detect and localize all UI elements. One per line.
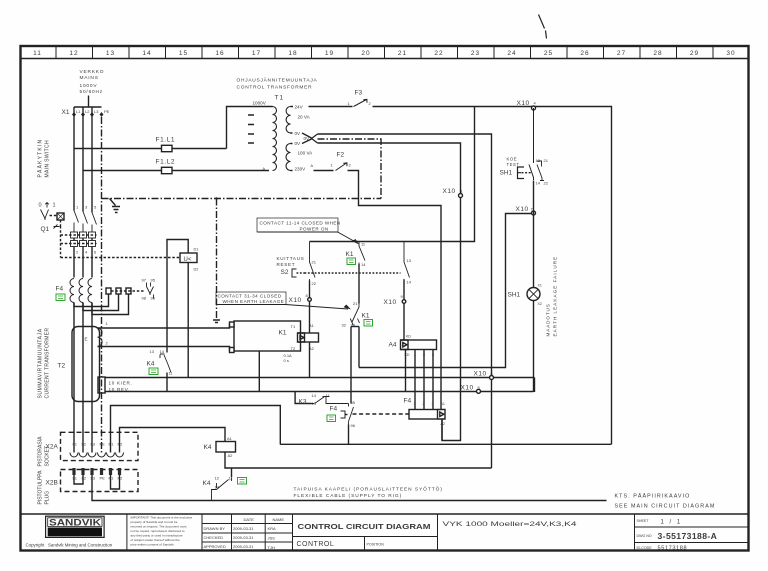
connector X2A socket cups <box>70 453 124 458</box>
svg-text:POWER ON: POWER ON <box>300 227 329 232</box>
wire rail y=377 from winding marker <box>105 377 535 379</box>
svg-text:27: 27 <box>617 50 626 57</box>
wire PE dash-dot vertical <box>101 117 103 453</box>
svg-text:96: 96 <box>351 423 356 428</box>
svg-text:CHECKED: CHECKED <box>204 535 224 540</box>
plc tag green K4 <box>149 368 158 375</box>
see-main-diagram note <box>615 493 716 510</box>
svg-text:10 KIER.: 10 KIER. <box>109 381 133 386</box>
svg-text:KOE: KOE <box>507 157 518 162</box>
svg-text:X10: X10 <box>289 297 302 304</box>
wire P1 from socket up and right <box>111 406 281 453</box>
wire 24V line to X10:4 and right drop <box>373 107 612 445</box>
svg-text:14: 14 <box>160 349 165 354</box>
svg-text:ID-CODE: ID-CODE <box>637 546 653 550</box>
connector X2A dashed box <box>61 432 139 460</box>
contact 13-14 (S2 operated) <box>407 258 412 285</box>
svg-text:A2: A2 <box>228 453 234 458</box>
svg-text:L2: L2 <box>85 109 90 114</box>
svg-text:PE: PE <box>100 476 106 481</box>
ruler cell dividers <box>56 46 713 59</box>
wire PE dash-dot branch down to earth bar <box>216 199 218 319</box>
terminal X10:8 on S2 line <box>309 281 311 325</box>
svg-text:not be copied, reproduced, dis: not be copied, reproduced, disclosed to <box>131 529 185 533</box>
svg-text:L3: L3 <box>91 442 96 447</box>
svg-text:0 s: 0 s <box>284 358 289 363</box>
svg-text:TJH: TJH <box>268 545 275 550</box>
svg-text:20 VA: 20 VA <box>298 115 311 120</box>
svg-text:MAADOTUS: MAADOTUS <box>546 303 551 336</box>
svg-text:CONTACT 31-34 CLOSED: CONTACT 31-34 CLOSED <box>218 294 282 299</box>
contact K4 13-14 on x=166 line <box>150 349 174 376</box>
wire X2B L3 long run right <box>92 475 607 501</box>
TITLEBLOCK <box>26 514 749 552</box>
svg-text:K4: K4 <box>204 444 212 451</box>
terminal X10:9 <box>403 280 405 341</box>
svg-text:16: 16 <box>215 50 224 57</box>
svg-text:A1: A1 <box>227 436 233 441</box>
svg-text:F1.L1: F1.L1 <box>156 137 176 144</box>
svg-text:100 VA: 100 VA <box>298 151 314 156</box>
wire PE dash-dot rail to right <box>102 198 382 200</box>
svg-text:1: 1 <box>414 402 416 406</box>
svg-text:PLUG: PLUG <box>45 491 51 505</box>
svg-text:22: 22 <box>544 181 549 186</box>
wire CT secondary nested runs <box>74 294 109 307</box>
relay K1 earth-leakage unit box <box>234 321 301 351</box>
mains label VERKKO/MAINS/1000V/50-60Hz <box>80 69 105 95</box>
wedge fork 0V <box>312 134 318 143</box>
svg-text:13: 13 <box>150 349 155 354</box>
svg-text:F4: F4 <box>56 286 64 293</box>
svg-text:X10: X10 <box>443 188 456 195</box>
svg-text:T2: T2 <box>58 363 66 370</box>
svg-text:SHEET: SHEET <box>637 519 650 523</box>
svg-text:PE: PE <box>104 109 110 114</box>
svg-text:K4: K4 <box>147 361 155 368</box>
svg-text:A2: A2 <box>441 422 445 426</box>
svg-text:property of Sandvik and it mus: property of Sandvik and it must be <box>131 520 178 524</box>
relay K1 coil <box>298 333 319 342</box>
wire K4 coil A2 rail right <box>225 452 492 468</box>
svg-text:D2: D2 <box>194 268 199 272</box>
svg-text:50/60Hz: 50/60Hz <box>80 89 103 95</box>
svg-text:KD: KD <box>406 335 411 339</box>
ruler bottom line / drawing top border <box>20 58 750 60</box>
disclaimer tiny text <box>131 516 193 547</box>
note flexible cable text <box>294 486 443 500</box>
svg-text:20: 20 <box>361 50 370 57</box>
svg-text:PÄÄKYTKIN: PÄÄKYTKIN <box>37 139 44 178</box>
svg-text:1: 1 <box>53 203 56 209</box>
svg-text:JSS: JSS <box>268 536 276 541</box>
svg-text:X10: X10 <box>461 385 474 392</box>
svg-text:2009-03-31: 2009-03-31 <box>233 544 254 549</box>
svg-text:28: 28 <box>653 50 662 57</box>
svg-text:K1: K1 <box>346 251 354 258</box>
svg-text:P1: P1 <box>109 442 115 447</box>
svg-text:3-55173188-A: 3-55173188-A <box>658 531 718 541</box>
svg-text:K1: K1 <box>279 330 287 337</box>
svg-text:any third party or used in man: any third party or used in manufacture <box>131 534 183 538</box>
label control transformer <box>237 77 318 91</box>
svg-text:of subject matter thereof with: of subject matter thereof without the <box>131 538 180 542</box>
svg-text:P2: P2 <box>118 476 124 481</box>
wire F4 A2 to 0V <box>441 419 443 441</box>
svg-text:22: 22 <box>312 281 317 286</box>
MAIN3 : T1 control transformer, F2, F3, 0V distribution <box>227 77 612 469</box>
switch Q1 operator box <box>57 213 64 220</box>
svg-text:2009-03-31: 2009-03-31 <box>233 535 254 540</box>
svg-text:98: 98 <box>142 296 147 301</box>
svg-text:24V: 24V <box>295 105 304 110</box>
svg-text:D1: D1 <box>194 248 199 252</box>
contact S2 21-22 <box>312 260 317 287</box>
wire A4 outputs down <box>406 350 434 410</box>
wire U< D2 down to rail <box>187 263 189 378</box>
wire 0V line A (down at 491) <box>318 134 492 468</box>
wire T2 secondary 2 to K1 <box>98 347 235 351</box>
svg-text:CONTROL TRANSFORMER: CONTROL TRANSFORMER <box>237 85 313 91</box>
svg-text:K1: K1 <box>362 313 370 320</box>
transformer T2 secondary arcs <box>98 328 103 346</box>
svg-text:0V: 0V <box>295 131 302 136</box>
wire 0V tap stubs into wedge <box>291 133 312 144</box>
svg-text:1000V: 1000V <box>80 83 98 89</box>
transformer T1 primary winding <box>273 107 277 171</box>
switch SH1 test (KOE) <box>507 157 520 168</box>
contact K1 11-14 <box>361 242 366 268</box>
svg-text:3: 3 <box>432 402 434 406</box>
svg-text:L1: L1 <box>76 109 81 114</box>
svg-text:WHEN EARTH LEAKAGE: WHEN EARTH LEAKAGE <box>223 299 285 304</box>
svg-text:F2: F2 <box>337 152 345 159</box>
svg-text:Copyright Sandvik Mining and: Copyright Sandvik Mining and Constructio… <box>26 543 113 548</box>
wire T2 secondary 1 to K1 <box>98 325 235 329</box>
secondary labels <box>295 105 314 172</box>
svg-text:0: 0 <box>39 203 42 209</box>
svg-text:TAIPUISA KAAPELI (PORAUSLAITTE: TAIPUISA KAAPELI (PORAUSLAITTEEN SYÖTTÖ) <box>294 486 443 493</box>
wire branch down to K3 line <box>295 392 311 404</box>
svg-text:K4: K4 <box>203 480 211 487</box>
note contact 11-14 <box>260 221 341 232</box>
wire K1-34 down to y367 rail <box>358 327 360 368</box>
wire phase L2 vertical <box>82 107 84 212</box>
relay coil K4 <box>216 442 236 453</box>
svg-text:0V: 0V <box>295 141 302 146</box>
CT terminal boxes <box>106 288 111 294</box>
wire branch up to K1 box bottom <box>258 351 260 392</box>
svg-text:1 / 1: 1 / 1 <box>661 520 683 526</box>
wire rail y=391 from winding marker <box>105 391 534 393</box>
wire rail R4 24V bottom <box>280 443 611 445</box>
title block top border <box>20 513 750 515</box>
svg-text:PISTORASIA: PISTORASIA <box>38 436 44 467</box>
svg-text:POSITION: POSITION <box>367 543 385 547</box>
fuse F1.L1 body <box>162 145 173 151</box>
svg-text:X10: X10 <box>516 206 529 213</box>
svg-text:FLEXIBLE CABLE (SUPPLY TO RIG): FLEXIBLE CABLE (SUPPLY TO RIG) <box>294 493 403 499</box>
linkage CT test dashed <box>111 290 144 292</box>
svg-text:2: 2 <box>423 402 425 406</box>
svg-text:CONTROL CIRCUIT DIAGRAM: CONTROL CIRCUIT DIAGRAM <box>298 522 431 531</box>
svg-text:95: 95 <box>151 278 156 283</box>
svg-text:CONTACT 11-14 CLOSED WHEN: CONTACT 11-14 CLOSED WHEN <box>260 221 341 226</box>
note contact 31-34 earth leakage <box>218 294 285 305</box>
svg-text:A1: A1 <box>441 402 445 406</box>
ground symbol on PE rail <box>110 199 121 213</box>
RULER <box>33 15 735 59</box>
svg-text:13: 13 <box>536 158 541 163</box>
svg-text:12: 12 <box>215 476 220 481</box>
MAIN4 : middle relays and right mesh <box>216 107 612 444</box>
svg-text:14: 14 <box>312 393 317 398</box>
connector X2B pins <box>72 468 121 475</box>
svg-text:DRAWN BY: DRAWN BY <box>204 526 226 531</box>
connector X2B dashed box <box>61 470 139 492</box>
svg-text:A4: A4 <box>389 342 397 349</box>
svg-text:TEST: TEST <box>507 162 520 167</box>
svg-text:L2: L2 <box>82 476 87 481</box>
svg-text:14: 14 <box>361 262 366 267</box>
svg-text:L3: L3 <box>91 476 96 481</box>
svg-text:CONTROL: CONTROL <box>297 541 335 548</box>
svg-text:19: 19 <box>325 50 334 57</box>
svg-text:DATE: DATE <box>244 517 255 522</box>
wire F1.L1 line <box>74 148 162 150</box>
wire F1.L2 line <box>83 170 162 172</box>
wire P2 from socket up to K4 coil <box>120 428 226 453</box>
svg-text:E: E <box>85 337 88 342</box>
svg-text:32: 32 <box>342 323 347 328</box>
svg-text:X2B: X2B <box>46 480 58 487</box>
svg-text:F4: F4 <box>404 398 412 405</box>
svg-text:97: 97 <box>142 278 147 283</box>
node X1 terminal bus <box>74 106 102 108</box>
ruler numbers 11-30 <box>33 50 735 57</box>
svg-text:P1: P1 <box>109 476 115 481</box>
svg-text:RESET: RESET <box>277 262 296 267</box>
svg-text:SUMMAVIRTAMUUNTAJA: SUMMAVIRTAMUUNTAJA <box>38 328 44 398</box>
svg-text:VYK 1000 Moeller=24V,K3,K4: VYK 1000 Moeller=24V,K3,K4 <box>443 522 578 528</box>
switch Q1 handle 0-1 <box>39 203 56 209</box>
svg-text:prior written consent of Sandv: prior written consent of Sandvik <box>131 543 175 547</box>
wire phase L3 vertical <box>91 107 93 213</box>
svg-text:1000V: 1000V <box>253 101 267 106</box>
wire phase stubs through overload <box>74 223 92 253</box>
wire X10:4 down through SH1 to X10:7 and lamp <box>529 108 534 180</box>
linkage F4 dashed to coil <box>353 413 410 415</box>
svg-text:X10: X10 <box>517 100 530 107</box>
svg-text:13: 13 <box>407 258 412 263</box>
svg-text:12: 12 <box>69 50 78 57</box>
relay U< undervoltage coil <box>180 248 198 272</box>
wire rail y=367 <box>359 214 534 368</box>
current transformer F4 arcs on phases <box>70 279 92 303</box>
svg-text:13: 13 <box>106 50 115 57</box>
svg-text:X2A: X2A <box>46 444 59 451</box>
svg-text:MAIN SWITCH: MAIN SWITCH <box>45 140 51 177</box>
transformer T1 secondary winding 0V/230V <box>286 144 291 171</box>
svg-text:NAME: NAME <box>273 517 285 522</box>
wire primary feed riser from F1.L1 <box>227 107 273 149</box>
svg-text:SH1: SH1 <box>508 292 521 299</box>
svg-text:2009-03-31: 2009-03-31 <box>233 526 254 531</box>
node PE junction dot <box>215 197 217 199</box>
svg-text:KRA: KRA <box>268 526 277 531</box>
svg-text:U<: U< <box>184 257 192 263</box>
svg-text:230V: 230V <box>295 167 307 172</box>
linkage Q1 trip dashed <box>61 226 180 258</box>
svg-text:L3: L3 <box>94 109 99 114</box>
svg-text:T1: T1 <box>275 95 285 102</box>
svg-text:14: 14 <box>407 280 412 285</box>
svg-text:returned on request. The docum: returned on request. The document must <box>131 525 187 529</box>
logo SANDVIK <box>46 516 105 537</box>
contact F4 97-95 98-96 <box>142 278 156 301</box>
wire 0V line B (down at 460) <box>318 143 461 441</box>
svg-text:11: 11 <box>33 50 42 57</box>
winding marker 10 KIER <box>98 377 105 393</box>
LEFTTEXT <box>37 139 558 505</box>
svg-text:SH1: SH1 <box>500 170 513 177</box>
svg-text:X10: X10 <box>384 299 397 306</box>
svg-text:22: 22 <box>434 50 443 57</box>
svg-text:L1: L1 <box>73 442 78 447</box>
fuse F1.L2 body <box>162 167 173 173</box>
svg-text:29: 29 <box>690 50 699 57</box>
svg-text:21: 21 <box>312 260 317 265</box>
svg-text:EARTH LEAKAGE FAILURE: EARTH LEAKAGE FAILURE <box>553 256 558 337</box>
svg-text:14: 14 <box>536 181 541 186</box>
title block dividers <box>127 514 635 551</box>
svg-text:X1: X1 <box>62 109 70 116</box>
svg-text:APPROVED: APPROVED <box>204 544 226 549</box>
wire supply drop <box>88 96 90 108</box>
svg-text:21: 21 <box>353 301 358 306</box>
svg-text:VERKKO: VERKKO <box>80 69 105 75</box>
contact K1 21-32-34 changeover <box>342 301 359 328</box>
svg-text:24: 24 <box>507 50 516 57</box>
svg-text:X10: X10 <box>474 371 487 378</box>
pushbutton S2 reset <box>277 256 305 267</box>
svg-text:T1: T1 <box>291 324 296 329</box>
svg-text:CURRENT TRANSFORMER: CURRENT TRANSFORMER <box>45 328 51 399</box>
svg-text:KUITTAUS: KUITTAUS <box>277 256 305 261</box>
svg-text:SANDVIK: SANDVIK <box>49 518 102 528</box>
svg-text:PISTOTULPPA: PISTOTULPPA <box>38 470 44 505</box>
svg-text:23: 23 <box>471 50 480 57</box>
svg-text:P2: P2 <box>118 442 124 447</box>
wire U< top loop rectangle <box>167 240 188 353</box>
svg-text:14: 14 <box>142 50 151 57</box>
svg-text:MAINS: MAINS <box>80 75 99 81</box>
svg-text:K3: K3 <box>299 399 307 406</box>
wire 24V tap to F3 <box>291 106 353 108</box>
svg-text:15: 15 <box>179 50 188 57</box>
svg-text:L1: L1 <box>73 476 78 481</box>
svg-text:DWG NO: DWG NO <box>637 534 652 538</box>
svg-text:Q1: Q1 <box>41 226 50 233</box>
wire 24V sub-rail y=241 <box>310 107 475 242</box>
svg-text:IMPORTANT! This document is th: IMPORTANT! This document is the exclusiv… <box>131 516 193 520</box>
svg-text:21: 21 <box>398 50 407 57</box>
transformer T1 secondary winding 24V/0V <box>286 107 290 133</box>
wire K1 coil A1/A2 vertical <box>309 325 311 378</box>
svg-text:OHJAUSJÄNNITEMUUNTAJA: OHJAUSJÄNNITEMUUNTAJA <box>237 77 318 84</box>
svg-text:X1: X1 <box>538 284 542 288</box>
svg-text:SEE MAIN CIRCUIT DIAGRAM: SEE MAIN CIRCUIT DIAGRAM <box>615 504 716 510</box>
transformer T2 body <box>72 327 100 402</box>
breaker Q1 thermal overload elements <box>71 232 96 247</box>
wire F4-96 down to R4 <box>348 425 350 445</box>
wire X2B P1-P2 loop <box>111 475 120 489</box>
svg-text:KTS. PÄÄPIIRIKAAVIO: KTS. PÄÄPIIRIKAAVIO <box>615 493 691 500</box>
svg-text:18: 18 <box>288 50 297 57</box>
wire 230V tap to F2 <box>291 170 334 172</box>
svg-text:55173188: 55173188 <box>658 546 688 552</box>
wire X10:6 rail right end down <box>534 378 535 392</box>
svg-text:S2: S2 <box>281 269 289 276</box>
linkage S2 dotted to contact 13-14 <box>305 272 401 274</box>
X1 terminal diamonds L1 L2 L3 PE <box>72 112 104 117</box>
MAIN2 : T2 + connectors + K4 <box>46 321 607 501</box>
svg-text:L2: L2 <box>82 442 87 447</box>
wire K1-32 down to K3 line <box>350 327 352 404</box>
svg-text:30: 30 <box>726 50 735 57</box>
breaker Q1 pole contacts with pins 1,3,5 / 2,4,6 <box>74 211 97 225</box>
svg-text:T2: T2 <box>291 346 296 351</box>
svg-text:26: 26 <box>580 50 589 57</box>
approval table <box>204 517 285 550</box>
svg-text:X2: X2 <box>538 302 542 306</box>
stray pen mark above ruler <box>539 15 547 39</box>
wire X2B L1-L2 loop <box>74 475 83 484</box>
svg-text:F1.L2: F1.L2 <box>156 159 176 166</box>
ground earth T-bar <box>213 320 220 323</box>
svg-text:95: 95 <box>351 400 356 405</box>
wire F2 out to F4 coil A1 <box>348 171 442 410</box>
svg-text:21: 21 <box>544 158 549 163</box>
transformer T1 core dashes <box>248 115 254 143</box>
svg-text:25: 25 <box>544 50 553 57</box>
wire PE dash-dot from wedge down to PE rail <box>318 139 382 199</box>
svg-text:17: 17 <box>252 50 261 57</box>
svg-text:PE: PE <box>100 442 106 447</box>
svg-text:F4: F4 <box>330 406 338 413</box>
wire phase L1 vertical <box>73 107 75 211</box>
svg-text:F3: F3 <box>355 90 363 97</box>
